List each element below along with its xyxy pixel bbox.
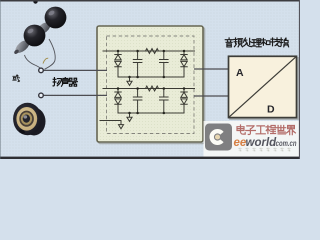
svg-text:.com.cn: .com.cn	[274, 138, 297, 148]
svg-text:D: D	[267, 104, 275, 116]
svg-text:world: world	[246, 137, 278, 149]
svg-text:A: A	[236, 67, 244, 79]
